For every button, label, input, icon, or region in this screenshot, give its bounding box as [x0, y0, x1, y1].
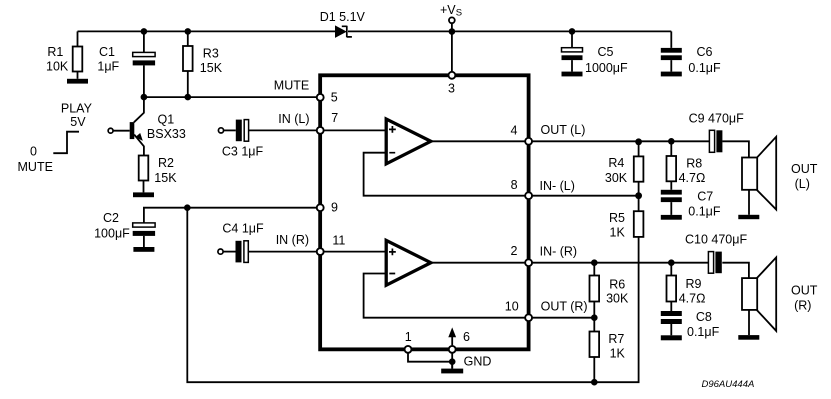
svg-text:0.1μF: 0.1μF [687, 325, 720, 339]
ground for C5 [562, 72, 583, 77]
svg-text:100μF: 100μF [94, 226, 130, 240]
svg-text:0: 0 [30, 145, 37, 159]
resistor R8 [667, 141, 677, 190]
wire IN- (L) line pin 8 to R4/R5 junction [529, 195, 639, 197]
svg-text:C5: C5 [598, 45, 614, 59]
svg-text:1000μF: 1000μF [585, 61, 628, 75]
svg-text:C9 470μF: C9 470μF [689, 111, 745, 125]
node junction dots [141, 28, 675, 385]
node pin9/bus junction [184, 204, 191, 211]
svg-text:R5: R5 [609, 211, 625, 225]
node R9 top junction [668, 259, 675, 266]
node R3 bottom junction [185, 94, 192, 101]
wire IN- (R) line pin 2 to C10 [529, 262, 709, 264]
pin 6 [449, 346, 456, 353]
wire top supply rail left segment [78, 30, 336, 32]
ground for R2 [133, 192, 154, 197]
node R4 top junction [635, 138, 642, 145]
capacitor C1 [133, 31, 155, 97]
svg-text:5V: 5V [70, 115, 86, 129]
node C1 bottom / mute junction [141, 94, 148, 101]
wire op-amp U1B output to pin 2 [430, 262, 529, 264]
speaker OUT (R) [742, 257, 776, 335]
capacitor C6 [661, 31, 682, 71]
svg-text:D1 5.1V: D1 5.1V [320, 10, 366, 24]
wire pin 1 to GND node jog [408, 350, 452, 362]
svg-text:2: 2 [511, 244, 518, 258]
svg-text:IN- (R): IN- (R) [540, 245, 578, 259]
wire C9 to speaker OUT (L) [722, 141, 749, 158]
wire C10 to speaker OUT (R) [722, 263, 749, 279]
pin 11 [317, 248, 324, 255]
wire signal ground bus from pin9 node down across bottom and up to R5 [187, 208, 638, 383]
capacitor C2 [133, 223, 155, 247]
wire op-amp U1A input from pin 7 [320, 129, 386, 131]
svg-text:7: 7 [331, 111, 338, 125]
svg-text:OUT: OUT [791, 162, 818, 176]
resistor R9 [667, 263, 677, 311]
svg-text:R8: R8 [686, 156, 702, 170]
svg-text:8: 8 [511, 178, 518, 192]
svg-text:R2: R2 [158, 156, 174, 170]
svg-text:1K: 1K [610, 347, 626, 361]
svg-text:C1: C1 [99, 45, 115, 59]
capacitor C5 [562, 31, 583, 71]
node R4/R5 junction [635, 192, 642, 199]
diode D1 zener 5.1V [335, 25, 352, 38]
svg-text:BSX33: BSX33 [147, 127, 186, 141]
capacitor C8 [661, 311, 682, 335]
svg-text:C6: C6 [697, 45, 713, 59]
svg-text:IN (R): IN (R) [276, 233, 309, 247]
svg-text:R6: R6 [609, 277, 625, 291]
svg-text:0.1μF: 0.1μF [688, 61, 721, 75]
svg-text:0.1μF: 0.1μF [688, 205, 721, 219]
svg-text:PLAY: PLAY [61, 101, 93, 115]
ground for C8 [661, 335, 682, 340]
svg-text:10: 10 [505, 299, 519, 313]
wire OUT (L) line pin 4 to C9 [529, 140, 710, 142]
wire pin 6 down to ground [451, 350, 453, 369]
pin circles [317, 72, 532, 353]
svg-text:30K: 30K [605, 171, 628, 185]
svg-text:15K: 15K [154, 171, 177, 185]
wire +Vs drop to pin 3 [451, 23, 453, 71]
svg-text:10K: 10K [46, 59, 69, 73]
op-amp U1A [386, 119, 431, 164]
svg-text:9: 9 [331, 201, 338, 215]
pin 4 [525, 138, 532, 145]
resistor R2 [139, 156, 149, 193]
power +Vs terminal [449, 17, 455, 23]
wire op-amp U1A feedback to pin 8 [364, 153, 529, 196]
capacitor C4 input terminal [218, 249, 223, 254]
svg-text:C8: C8 [696, 310, 712, 324]
ground for C6 [661, 72, 682, 77]
capacitor C7 [661, 190, 682, 215]
svg-text:C10 470μF: C10 470μF [685, 232, 747, 246]
pin 10 [525, 314, 532, 321]
svg-text:4: 4 [511, 123, 518, 137]
svg-text:1μF: 1μF [97, 59, 119, 73]
wire pin 9 line to C2 [144, 208, 320, 223]
svg-text:+V: +V [440, 3, 456, 17]
svg-text:(L): (L) [795, 177, 810, 191]
wire MUTE line to pin 5 [144, 96, 320, 98]
pin 1 [405, 346, 412, 353]
svg-text:15K: 15K [200, 61, 223, 75]
svg-text:OUT (L): OUT (L) [541, 123, 586, 137]
IC U1 amplifier block [320, 75, 528, 349]
svg-text:1: 1 [405, 330, 412, 344]
node R6/R7 junction [591, 314, 598, 321]
capacitor C9 [709, 130, 722, 152]
svg-text:4.7Ω: 4.7Ω [679, 292, 706, 306]
svg-text:5: 5 [331, 91, 338, 105]
svg-text:C2: C2 [103, 211, 119, 225]
resistor R3 [183, 31, 193, 97]
svg-text:(R): (R) [794, 298, 811, 312]
svg-text:R1: R1 [47, 45, 63, 59]
capacitor C10 [708, 252, 721, 274]
node R8 top junction [668, 138, 675, 145]
op-amp U1B [386, 240, 431, 285]
capacitor C4 [223, 241, 320, 263]
GND arrow at pin 6 [448, 327, 456, 345]
node R3 top junction [185, 28, 192, 35]
node GND junction dot [449, 358, 456, 365]
svg-text:R4: R4 [608, 156, 624, 170]
svg-text:C7: C7 [697, 190, 713, 204]
svg-text:4.7Ω: 4.7Ω [679, 171, 706, 185]
svg-text:6: 6 [463, 330, 470, 344]
speaker OUT (L) [742, 137, 776, 215]
transistor Q1 BSX33 [108, 97, 144, 155]
ground for speaker OUT (L) [738, 215, 759, 219]
svg-text:IN (L): IN (L) [278, 112, 309, 126]
svg-text:C3 1μF: C3 1μF [222, 145, 264, 159]
pin 8 [525, 192, 532, 199]
pin 5 [317, 94, 324, 101]
node PLAY/MUTE step waveform [53, 132, 79, 154]
wire op-amp U1B input from pin 11 [320, 251, 386, 253]
svg-text:D96AU444A: D96AU444A [702, 379, 755, 390]
ground for C7 [661, 215, 682, 220]
node R6 top junction [591, 259, 598, 266]
svg-text:OUT (R): OUT (R) [541, 299, 588, 313]
svg-text:R7: R7 [608, 332, 624, 346]
ground for C2 [133, 247, 154, 252]
resistor R5 [634, 196, 644, 237]
resistor R4 [634, 141, 644, 195]
pin 2 [525, 259, 532, 266]
pin 3 [448, 72, 455, 79]
resistor R1 [73, 31, 83, 78]
svg-text:R3: R3 [203, 46, 219, 60]
svg-text:MUTE: MUTE [274, 78, 309, 92]
capacitor C3 [224, 120, 321, 142]
svg-text:R9: R9 [686, 277, 702, 291]
ground for speaker OUT (R) [738, 335, 759, 340]
svg-text:Q1: Q1 [158, 112, 175, 126]
pin 9 [317, 204, 324, 211]
resistor R7 [590, 318, 600, 383]
svg-text:C4 1μF: C4 1μF [222, 222, 264, 236]
node C5 rail junction [569, 28, 576, 35]
svg-text:3: 3 [448, 82, 455, 96]
svg-text:MUTE: MUTE [18, 160, 53, 174]
ground for R1 [67, 79, 88, 84]
svg-text:1K: 1K [610, 226, 626, 240]
node C1 top junction [141, 28, 148, 35]
svg-text:11: 11 [332, 233, 345, 247]
svg-text:30K: 30K [606, 292, 629, 306]
resistor R6 [590, 263, 600, 318]
svg-text:OUT: OUT [791, 284, 818, 298]
wire top supply rail right segment [348, 30, 671, 32]
capacitor C3 input terminal [218, 128, 223, 133]
svg-text:GND: GND [464, 354, 492, 368]
wire op-amp U1B feedback to pin 10 [364, 274, 529, 318]
wire OUT (R) line pin 10 to R6/R7 junction [529, 317, 595, 319]
node +Vs rail junction [449, 28, 456, 35]
svg-text:IN- (L): IN- (L) [540, 179, 575, 193]
svg-text:S: S [456, 8, 462, 19]
pin 7 [317, 127, 324, 134]
wire op-amp U1A output to pin 4 [430, 140, 529, 142]
ground symbol GND [441, 362, 463, 374]
node R7 bottom bus junction [591, 379, 598, 386]
